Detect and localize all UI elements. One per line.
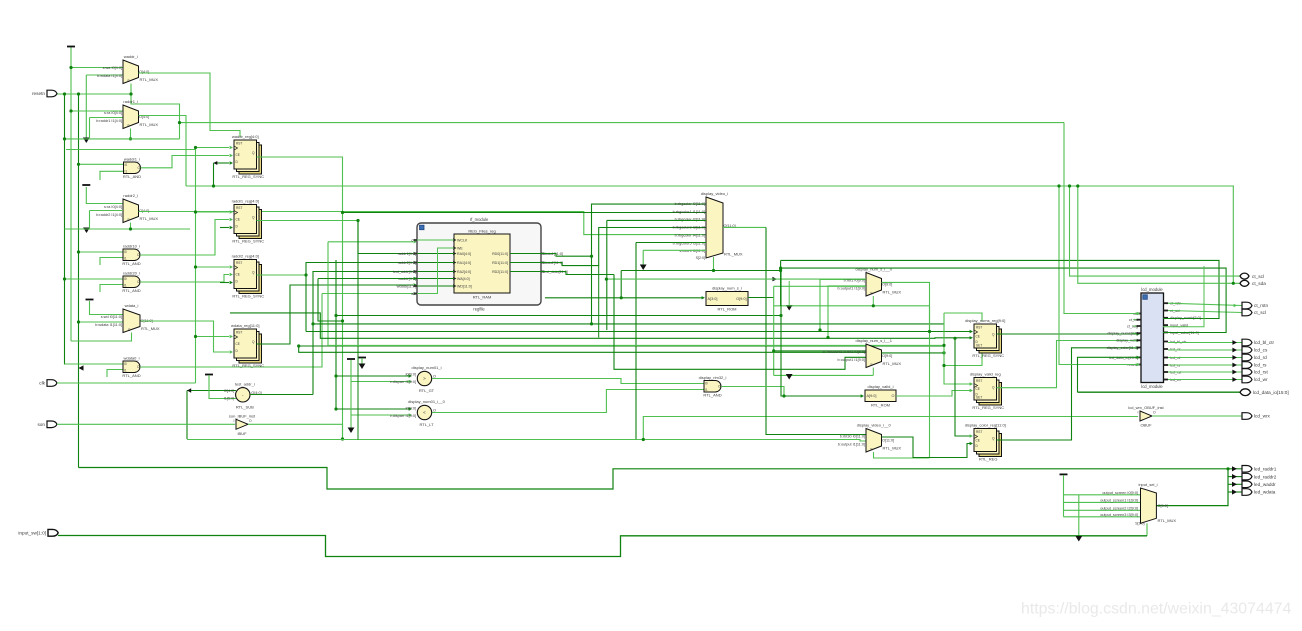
wire ct_scl row xyxy=(1070,186,1241,276)
wire display_valid to lcd xyxy=(997,341,1140,388)
wire const to test_addr I1 xyxy=(209,375,236,399)
wire input_sel output xyxy=(1156,469,1228,506)
wire band jog up to OBUF xyxy=(643,417,1138,440)
wire to valid ROM A xyxy=(781,268,861,396)
svg-text:I1: I1 xyxy=(124,284,127,288)
wire lcd output y372 xyxy=(1168,371,1242,373)
svg-text:RTL_MUX: RTL_MUX xyxy=(883,290,902,295)
svg-text:RTL_MUX: RTL_MUX xyxy=(140,216,159,221)
svg-text:output_screen1 I1[9:0]: output_screen1 I1[9:0] xyxy=(1100,498,1138,502)
wire i1 row y286 xyxy=(774,285,866,287)
svg-text:s:ra I0[4:0]: s:ra I0[4:0] xyxy=(104,111,122,115)
wire raddr2 i1 drop xyxy=(89,211,91,230)
svg-text:I1: I1 xyxy=(124,369,127,373)
svg-text:wdata_i: wdata_i xyxy=(125,303,139,308)
wire clk into lcd xyxy=(1064,123,1139,314)
register display_color_reg[11:0] xyxy=(965,423,1006,462)
wire raddr1 i1 drop xyxy=(89,118,91,139)
output port lcd_bl_ctr xyxy=(1242,339,1275,346)
svg-text:RD1[11:0]: RD1[11:0] xyxy=(492,261,508,265)
svg-text:RTL_MUX: RTL_MUX xyxy=(140,122,159,127)
svg-text:RTL_AND: RTL_AND xyxy=(123,174,141,179)
svg-text:waddr_reg[4:0]: waddr_reg[4:0] xyxy=(232,134,259,139)
operator display_num01_i RTL_GT xyxy=(390,365,442,393)
svg-text:waddr1_i: waddr1_i xyxy=(124,157,140,162)
svg-text:input_sel_i: input_sel_i xyxy=(1138,482,1157,487)
wire raddr2_reg Q xyxy=(257,274,307,276)
black arrow led_wdata xyxy=(1232,489,1237,494)
buffer son_IBUF_inst xyxy=(229,413,256,436)
inout port ct_scl xyxy=(1240,273,1264,279)
wire select vertical x929 xyxy=(929,306,931,458)
svg-text:raddr10_i: raddr10_i xyxy=(123,244,140,249)
wire reg SET loop bottom xyxy=(944,350,982,366)
wire vertical x358 lower xyxy=(357,316,359,440)
wire wdata_reg Q to RAM wd xyxy=(257,285,414,344)
input port son xyxy=(37,421,57,428)
black arrow into port xyxy=(1232,348,1237,353)
wire lcd output y365 xyxy=(1168,364,1242,366)
svg-text:I1[5:0]: I1[5:0] xyxy=(224,396,235,400)
svg-text:b:rbgcolor I4[11:0]: b:rbgcolor I4[11:0] xyxy=(675,233,705,237)
mux input_sel_i xyxy=(1135,482,1176,526)
output port led_raddr1 xyxy=(1242,466,1277,473)
wire raddr1_reg Q xyxy=(257,220,359,222)
wire vertical x591 lower xyxy=(591,256,593,324)
mux display_video_i__0 xyxy=(838,423,902,453)
svg-text:display_color_reg[11:0]: display_color_reg[11:0] xyxy=(965,423,1006,428)
svg-text:display_num_s_i__0: display_num_s_i__0 xyxy=(856,267,893,272)
svg-text:raddr20_i: raddr20_i xyxy=(123,271,140,276)
wire stub x789 xyxy=(788,281,790,307)
wire waddr to RAM xyxy=(318,278,413,280)
svg-text:RTL_REG_SYNC: RTL_REG_SYNC xyxy=(972,405,1004,410)
wire raddr2 to RAM and row D xyxy=(306,263,413,332)
svg-text:display_num01_i__0: display_num01_i__0 xyxy=(408,399,445,404)
svg-text:WCLK: WCLK xyxy=(457,238,468,242)
wire reg1 D from run y186 xyxy=(214,162,230,164)
svg-text:O: O xyxy=(249,419,252,423)
RAM module rf_module outer xyxy=(417,217,541,312)
output port lcd_rst xyxy=(1242,369,1269,376)
wire waddr1 AND output to reg CE xyxy=(141,156,230,168)
wire vertical x86 upper xyxy=(85,75,87,140)
wire vertical x187 to band xyxy=(186,391,188,440)
wire lcd_data_io bus to port xyxy=(1078,391,1241,393)
wire waddr long run y212 to display mux i1 xyxy=(343,212,707,214)
wire stub led_raddr2 xyxy=(1228,476,1242,478)
wire clk row xyxy=(57,382,196,384)
output port led_raddr2 xyxy=(1242,473,1277,480)
wire const to GT I1 xyxy=(351,381,409,383)
wire raddr10 AND i0 xyxy=(79,251,124,253)
svg-text:RTL_AND: RTL_AND xyxy=(122,288,140,293)
wire test_addr I0 xyxy=(187,390,236,392)
wire display mux select xyxy=(713,257,715,271)
svg-text:v:disparr I1[9:0]: v:disparr I1[9:0] xyxy=(390,380,416,384)
wire to LT I0 xyxy=(336,408,409,410)
svg-text:CE: CE xyxy=(236,218,240,222)
svg-text:RTL_GT: RTL_GT xyxy=(419,388,435,393)
wire vertical x636 xyxy=(635,243,637,440)
svg-text:test_addr[4:0]: test_addr[4:0] xyxy=(393,270,416,274)
svg-text:RTL_AND: RTL_AND xyxy=(122,373,140,378)
svg-text:lcd_wrx_OBUF_inst: lcd_wrx_OBUF_inst xyxy=(1128,405,1164,410)
wire band row A to nums reg D xyxy=(230,313,970,338)
svg-text:I1: I1 xyxy=(124,257,127,261)
svg-text:lcd_wrx: lcd_wrx xyxy=(1254,414,1271,419)
svg-text:b:wdata I1[4:0]: b:wdata I1[4:0] xyxy=(97,74,122,78)
tie bar x362 y357 xyxy=(358,357,366,359)
svg-text:lcd_rd: lcd_rd xyxy=(1254,355,1267,360)
wire const to LT I1 xyxy=(351,414,409,416)
svg-text:ct_sda: ct_sda xyxy=(1252,281,1266,286)
svg-text:A[9:0]: A[9:0] xyxy=(867,394,877,398)
wire wdata0 AND i0 xyxy=(65,363,124,365)
wire num_s__1 output xyxy=(882,352,945,354)
output port led_wdata xyxy=(1242,489,1276,496)
svg-text:rf_module: rf_module xyxy=(470,217,489,222)
register raddr1_reg[4:0] xyxy=(232,199,265,244)
svg-text:WE: WE xyxy=(457,246,463,250)
register display_nums_reg[9:0] xyxy=(965,318,1005,358)
wire waddr_reg Q down to band xyxy=(257,157,343,439)
svg-text:RST: RST xyxy=(976,379,982,383)
wire band y315 xyxy=(336,315,781,317)
wire input_sel i3 xyxy=(1064,516,1141,518)
operator test_addr_i RTL_SUB xyxy=(224,381,262,409)
svg-text:I0[9:0]: I0[9:0] xyxy=(405,407,416,411)
wire stub led_waddr xyxy=(1228,483,1242,485)
svg-text:O: O xyxy=(433,375,436,379)
svg-text:led_raddr1: led_raddr1 xyxy=(1254,467,1277,472)
svg-text:RTL_ROM: RTL_ROM xyxy=(871,403,890,408)
wire reg D stub y282.5 xyxy=(220,282,229,284)
wire rdata2 to display mux i3 xyxy=(541,228,706,266)
wire clk tap y147.5 xyxy=(196,147,230,149)
wire to RAM wclk xyxy=(328,241,413,243)
svg-text:RST: RST xyxy=(236,142,242,146)
wire input_sel select xyxy=(1146,523,1148,536)
svg-text:lcd_rs: lcd_rs xyxy=(1254,363,1267,368)
black arrow led_raddr2 xyxy=(1232,474,1237,479)
svg-text:lcd_wr: lcd_wr xyxy=(1254,377,1268,382)
wire GT output to rim AND i0 xyxy=(432,379,704,384)
lcd_module left pin ticks xyxy=(1137,313,1142,315)
wire select bus row y270 xyxy=(621,270,780,272)
wire to GT I0 xyxy=(336,375,409,377)
wire reg D stub y227.5 xyxy=(220,227,229,229)
wire input_sel i1 xyxy=(1064,501,1141,503)
wire long bottom bus to led ports xyxy=(79,468,1229,490)
svg-text:raddr1_i: raddr1_i xyxy=(123,99,138,104)
wire lcd output y350 xyxy=(1168,349,1242,351)
black arrow into port xyxy=(1232,377,1237,382)
svg-text:RTL_REG_SYNC: RTL_REG_SYNC xyxy=(232,239,264,244)
wire display_color to lcd xyxy=(997,348,1140,440)
svg-text:OBUF: OBUF xyxy=(1140,423,1152,428)
wire bus vertical x336 xyxy=(335,260,337,409)
svg-text:O[9:0]: O[9:0] xyxy=(736,297,746,301)
wire clk vertical to register clocks xyxy=(195,148,197,384)
supply tie bar top left xyxy=(67,46,75,48)
svg-text:RST: RST xyxy=(976,430,982,434)
wire resetn into lcd xyxy=(1059,186,1139,365)
output port ct_rstn xyxy=(1242,302,1268,309)
svg-text:RST: RST xyxy=(236,261,242,265)
wire input_sw long bus xyxy=(58,536,1147,557)
wire raddr10 output to raddr1 reg CE xyxy=(140,220,229,256)
wire video__0 output to color reg D xyxy=(882,437,971,458)
wire raddr20 AND i0 xyxy=(65,278,124,280)
module lcd_module xyxy=(1141,287,1164,389)
black arrow into port xyxy=(1232,363,1237,368)
arrow into x187 vertical xyxy=(187,388,191,392)
svg-text:RTL_MUX: RTL_MUX xyxy=(883,446,902,451)
wire from tie bar to wdata mux i0 xyxy=(90,301,124,315)
wire input_sel i0 xyxy=(1064,494,1141,496)
register raddr2_reg[4:0] xyxy=(232,254,265,299)
wire vertical x621 xyxy=(620,271,622,298)
black arrow stub x78 y368 xyxy=(79,365,84,370)
svg-text:CE: CE xyxy=(236,153,240,157)
wire vertical x328 xyxy=(327,242,329,346)
mux wdata_i xyxy=(95,303,160,333)
svg-text:lcd_module: lcd_module xyxy=(1141,384,1163,389)
wire output down to __0 mux xyxy=(766,227,866,434)
svg-text:clk: clk xyxy=(39,381,45,386)
svg-text:RTL_MUX: RTL_MUX xyxy=(140,77,159,82)
svg-text:RST: RST xyxy=(976,326,982,330)
wire raddr1_i output xyxy=(139,116,187,187)
svg-text:WD[11:0]: WD[11:0] xyxy=(457,284,472,288)
wire const vertical x1063 xyxy=(1063,475,1065,517)
wire to num_s mux i0 xyxy=(820,280,866,331)
wire ROM output xyxy=(748,297,774,299)
svg-text:O: O xyxy=(892,394,895,398)
wire band row F y352 xyxy=(299,346,866,352)
svg-text:REG_Files_reg: REG_Files_reg xyxy=(468,229,495,234)
mux raddr1_i xyxy=(96,99,158,129)
svg-text:ct_rstn: ct_rstn xyxy=(1254,303,1268,308)
svg-text:display_video_i__0: display_video_i__0 xyxy=(857,423,892,428)
wire waddr1 AND i0 xyxy=(79,163,124,165)
wire we to RAM xyxy=(322,293,413,295)
wire test_addr to RAM xyxy=(313,272,413,395)
svg-text:CE: CE xyxy=(976,387,980,391)
wire band y439 xyxy=(187,440,866,442)
wire clk tap y336.5 xyxy=(196,336,230,338)
svg-text:display_num01_i: display_num01_i xyxy=(411,365,441,370)
wire clk tap y267 xyxy=(196,266,230,268)
output port lcd_rs xyxy=(1242,362,1267,369)
inout port lcd_data_io[15:0] xyxy=(1240,389,1289,396)
wire raddr2_i select xyxy=(130,223,132,230)
svg-text:led_raddr2: led_raddr2 xyxy=(1254,474,1277,479)
svg-text:son_IBUF_inst: son_IBUF_inst xyxy=(229,413,256,418)
wire valid ROM output to reg D xyxy=(896,391,970,397)
svg-text:display_rim32_i: display_rim32_i xyxy=(699,375,727,380)
wire select row y375 xyxy=(774,374,874,376)
wire raddr20 output to raddr2 reg CE xyxy=(140,275,229,283)
ground arrow x86 y143 xyxy=(83,138,90,144)
mux display_video_i xyxy=(673,191,743,260)
wire num_s__0 output xyxy=(882,282,930,331)
wire i0 row y279 xyxy=(606,278,866,280)
wire OBUF to lcd_wrx port xyxy=(1152,415,1242,417)
svg-text:raddr2_reg[4:0]: raddr2_reg[4:0] xyxy=(232,254,259,259)
svg-text:I0: I0 xyxy=(705,381,708,385)
wire to waddr_i mux i0 xyxy=(71,67,123,69)
wire display mux i5 xyxy=(636,242,706,244)
wire waddr_i output to waddr reg RST xyxy=(139,73,241,137)
wire to raddr1_i mux i0 xyxy=(71,110,123,112)
mux display_num_s_i__0 xyxy=(838,267,902,297)
svg-text:I0[4:0]: I0[4:0] xyxy=(224,389,235,393)
tie bar x86 y185 xyxy=(82,184,90,186)
register display_valid_reg xyxy=(970,372,1004,411)
svg-text:b:rbt30 I0[11:0]: b:rbt30 I0[11:0] xyxy=(840,434,865,438)
svg-text:output_screen3 I3[9:0]: output_screen3 I3[9:0] xyxy=(1100,513,1138,517)
svg-text:wdata_reg[11:0]: wdata_reg[11:0] xyxy=(231,323,259,328)
svg-text:I: I xyxy=(1138,411,1139,415)
wire to raddr1_i mux i1 xyxy=(90,117,124,119)
svg-text:display_nums_reg[9:0]: display_nums_reg[9:0] xyxy=(965,318,1005,323)
svg-text:https://blog.csdn.net/weixin_4: https://blog.csdn.net/weixin_43074474 xyxy=(1021,601,1291,618)
svg-text:b:rbgcolor1 I1[11:0]: b:rbgcolor1 I1[11:0] xyxy=(673,210,705,214)
svg-text:raddr1_reg[4:0]: raddr1_reg[4:0] xyxy=(232,199,259,204)
svg-text:led_wdata: led_wdata xyxy=(1254,490,1276,495)
output port lcd_cs xyxy=(1242,347,1268,354)
tie bar x1063.5 y474 xyxy=(1060,474,1068,476)
svg-text:display_valid_reg: display_valid_reg xyxy=(970,372,1001,377)
wire long bus vertical x78 xyxy=(78,94,80,468)
output port ct_scl xyxy=(1242,309,1266,316)
wire resetn run down to ct_sda join xyxy=(1232,186,1234,283)
svg-text:SET: SET xyxy=(976,396,982,400)
RAM RTL_RAM inner REG_Files_reg xyxy=(454,229,510,300)
wire display mux i2 xyxy=(607,219,706,221)
wire x780 drop to select rows xyxy=(780,260,782,305)
svg-text:I0: I0 xyxy=(125,163,128,167)
svg-text:RTL_REG_SYNC: RTL_REG_SYNC xyxy=(972,353,1004,358)
wire ct_sda row xyxy=(1078,186,1241,283)
wire stub led_raddr1 xyxy=(1228,468,1242,470)
AND gate display_rim32_i xyxy=(699,375,727,398)
wire band row C y323 xyxy=(313,323,944,325)
svg-text:CE: CE xyxy=(236,273,240,277)
svg-text:O: O xyxy=(433,409,436,413)
wire const vertical x351 xyxy=(350,360,352,430)
svg-text:output_screen I0[9:0]: output_screen I0[9:0] xyxy=(1102,491,1138,495)
ground arrow x789 y310 xyxy=(786,305,793,311)
wire raddr1_i select xyxy=(130,129,132,139)
svg-text:lcd_rst: lcd_rst xyxy=(1254,370,1269,375)
svg-text:RST: RST xyxy=(236,206,242,210)
svg-text:O[9:0]: O[9:0] xyxy=(1158,504,1168,508)
svg-text:I0: I0 xyxy=(124,362,127,366)
output port lcd_wrx xyxy=(1242,413,1271,420)
svg-text:son: son xyxy=(37,422,45,427)
svg-text:b:?rbcount1:b:rbt1 I0[9:0]: b:?rbcount1:b:rbt1 I0[9:0] xyxy=(823,350,865,354)
svg-text:raddr2[4:0]: raddr2[4:0] xyxy=(398,261,416,265)
svg-text:CE: CE xyxy=(976,438,980,442)
input port resetn xyxy=(32,90,57,97)
wire input_valid stub xyxy=(1163,266,1204,327)
wire wdata mux out to wdata reg D xyxy=(141,321,230,352)
svg-text:lcd_module: lcd_module xyxy=(1141,287,1163,292)
wire raddr1 to RAM xyxy=(358,221,413,254)
svg-text:WA[4:0]: WA[4:0] xyxy=(457,277,470,281)
wire x643 stub xyxy=(642,250,644,266)
wire raddr20 AND i1 xyxy=(100,285,123,293)
black arrow into port xyxy=(1232,370,1237,375)
svg-text:lcd_bl_ctr: lcd_bl_ctr xyxy=(1254,340,1275,345)
svg-text:b:rbgcolor5 I5[11:0]: b:rbgcolor5 I5[11:0] xyxy=(673,241,705,245)
svg-text:RTL_AND: RTL_AND xyxy=(703,393,721,398)
svg-text:RA0[4:0]: RA0[4:0] xyxy=(457,252,471,256)
svg-text:RTL_MUX: RTL_MUX xyxy=(141,326,160,331)
wire display mux i6 xyxy=(643,249,706,251)
wire reg RST loop top xyxy=(944,313,982,321)
mux waddr_i xyxy=(97,54,158,84)
svg-text:b:raddr1 I1[4:0]: b:raddr1 I1[4:0] xyxy=(96,119,122,123)
wire num_s__1 select xyxy=(872,368,874,376)
wire lcd_data_io into lcd xyxy=(1078,357,1140,392)
arrow on i0 row xyxy=(772,277,777,282)
wire ROM out to num_s__1 i0 xyxy=(774,350,866,352)
svg-text:RA1[4:0]: RA1[4:0] xyxy=(457,261,471,265)
wire raddr2_i output to display mux i4 xyxy=(139,212,707,235)
black arrow led_waddr xyxy=(1232,482,1237,487)
wire to num_s mux i1 xyxy=(828,286,866,338)
wire display_nums to lcd xyxy=(997,333,1140,335)
svg-text:b:output I1[11:0]: b:output I1[11:0] xyxy=(838,442,865,446)
svg-text:RST: RST xyxy=(236,331,242,335)
wire stub below tie xyxy=(361,358,363,366)
svg-text:display_video_i: display_video_i xyxy=(701,191,728,196)
svg-text:b:rbgcolor3 I3[11:0]: b:rbgcolor3 I3[11:0] xyxy=(673,226,705,230)
wire video__0 select xyxy=(874,452,930,458)
ground arrow x351 y433 xyxy=(348,428,355,434)
svg-text:RTL_RAM: RTL_RAM xyxy=(473,295,492,300)
wire bus vertical x64 xyxy=(65,94,124,364)
black arrow into port xyxy=(1232,355,1237,360)
wire lcd output y342.5 xyxy=(1168,342,1242,344)
wire ROM A input xyxy=(545,297,702,299)
wire waddr1 AND i1 xyxy=(100,171,124,180)
svg-text:lcd_data_io[15:0]: lcd_data_io[15:0] xyxy=(1253,390,1289,395)
AND gate waddr1_i xyxy=(123,157,141,180)
tie bar x89 y299 xyxy=(86,299,94,301)
RAM outer pin ticks xyxy=(414,239,418,241)
svg-text:wdata0_i: wdata0_i xyxy=(123,356,139,361)
wire wdata0 AND i1 xyxy=(107,370,123,378)
wire IBUF output xyxy=(248,424,343,439)
wire son to IBUF xyxy=(57,423,235,425)
output port lcd_wr xyxy=(1242,376,1268,383)
wire wdata0 output (we net) xyxy=(140,294,322,368)
wire to waddr_i mux i1 xyxy=(86,74,123,76)
wire test_data to num_s__1 i1 xyxy=(614,275,866,370)
wire select row y138 xyxy=(65,138,180,140)
ground arrow x1078 y541 xyxy=(1075,536,1082,542)
AND gate raddr20_i xyxy=(122,271,140,294)
svg-text:waddr_i: waddr_i xyxy=(124,54,138,59)
svg-text:O[9:0]: O[9:0] xyxy=(882,354,892,358)
svg-text:CE: CE xyxy=(976,334,980,338)
svg-text:display_valid_i: display_valid_i xyxy=(867,384,893,389)
